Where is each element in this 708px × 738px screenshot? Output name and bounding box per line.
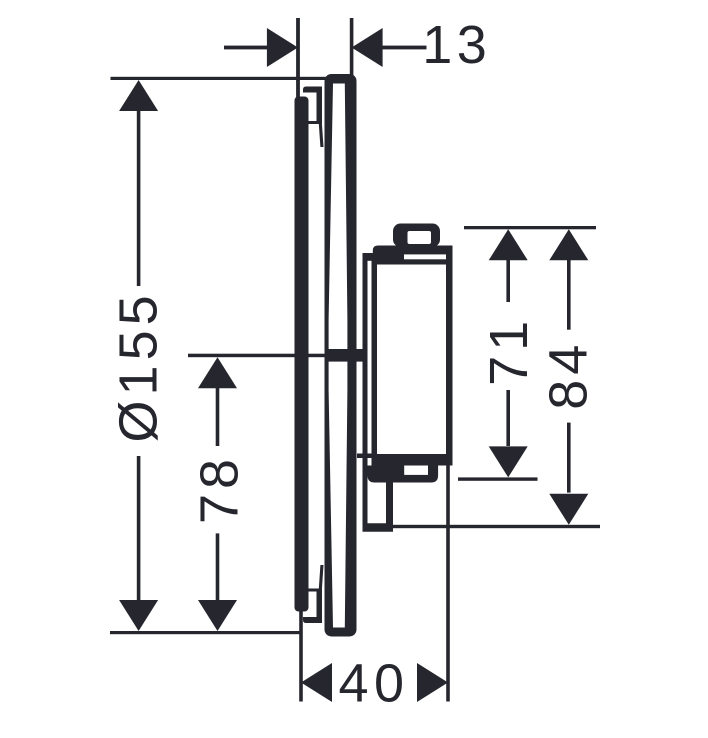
svg-text:84: 84	[538, 340, 598, 410]
svg-text:Ø155: Ø155	[109, 290, 169, 442]
dim 155 bottom extension line	[110, 631, 301, 634]
svg-text:71: 71	[479, 316, 539, 386]
carrier bottom slant line	[319, 565, 324, 589]
dim 40 right extension line	[446, 458, 450, 702]
plate center band	[326, 349, 366, 362]
wall sleeve bar	[295, 97, 309, 612]
cartridge top cap	[373, 246, 453, 265]
dim 71 line upper segment	[506, 260, 510, 302]
dims 71/84 top extension line	[464, 226, 596, 229]
svg-text:13: 13	[422, 15, 491, 75]
pipe right leg	[386, 483, 393, 528]
cartridge bottom lip	[368, 466, 439, 483]
trim carrier top bar	[303, 87, 322, 93]
dim 13 left tail	[224, 46, 267, 50]
dim 71 bottom extension line	[458, 477, 538, 480]
dim 40 left extension line	[299, 611, 303, 702]
carrier bottom right edge	[317, 589, 323, 621]
pipe bottom bar	[363, 523, 394, 532]
dim 78 line lower segment	[216, 533, 220, 600]
dim 13 right arrow	[352, 28, 383, 67]
dim 84 top arrow	[549, 229, 588, 260]
cartridge bottom cap	[372, 454, 451, 466]
dim 155 line lower segment	[137, 456, 141, 601]
bracket top stub	[363, 253, 376, 261]
dim 13 right extension line	[350, 18, 354, 76]
dim 155 top arrow	[119, 80, 158, 111]
dim 155 top extension line	[111, 77, 353, 80]
dim 84 line lower segment	[567, 423, 571, 493]
carrier top divider	[309, 121, 321, 124]
dim 155 bottom arrow	[119, 600, 158, 631]
dim 13 left arrow	[267, 28, 298, 67]
dim 78 top arrow	[198, 357, 237, 388]
escutcheon plate	[325, 74, 357, 637]
cartridge right edge	[446, 246, 453, 466]
cartridge left edge	[372, 253, 378, 466]
dim 84 line upper segment	[567, 260, 571, 330]
svg-text:78: 78	[190, 454, 250, 524]
bracket vertical line	[363, 253, 368, 526]
svg-text:40: 40	[338, 654, 409, 714]
dim 78 line upper segment	[216, 388, 220, 446]
dim 78 bottom arrow	[198, 600, 237, 631]
dim 71 bottom arrow	[489, 446, 528, 477]
center extension line	[188, 354, 327, 358]
dim 71 line lower segment	[506, 390, 510, 446]
dim 71 top arrow	[489, 229, 528, 260]
carrier bottom divider	[309, 589, 321, 592]
dim 13 right tail	[383, 46, 427, 50]
dim 40 right arrow	[417, 663, 448, 702]
dim 84 bottom extension line	[393, 525, 600, 528]
dim 155 line upper segment	[137, 110, 141, 286]
bracket bottom stub	[357, 454, 373, 459]
dim 40 left arrow	[301, 663, 332, 702]
dim 84 bottom arrow	[549, 494, 588, 525]
carrier bottom bar	[303, 617, 322, 623]
dim 13 left extension line	[296, 18, 300, 98]
carrier top right edge	[317, 93, 323, 125]
carrier top slant line	[319, 124, 324, 148]
valve button	[393, 224, 440, 248]
